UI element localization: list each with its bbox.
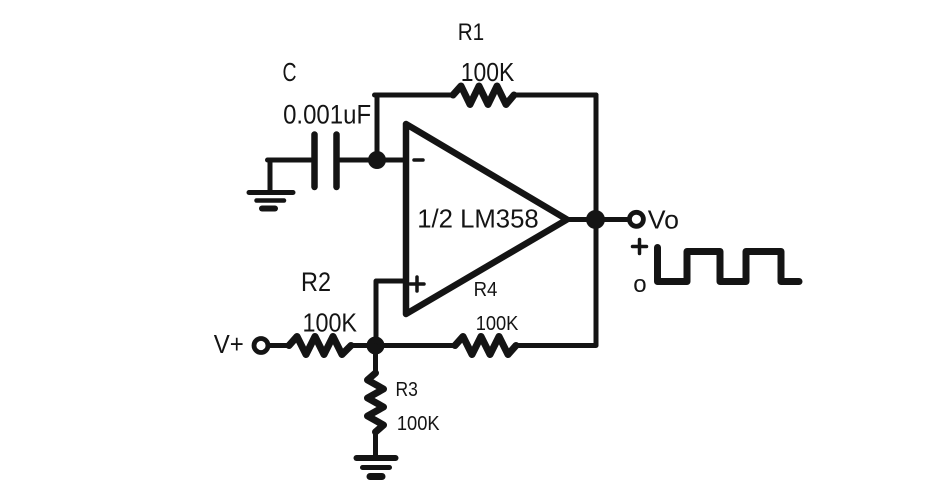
- wire: R3 top lead: [373, 346, 378, 374]
- node B (non-inverting junction): [367, 337, 385, 355]
- pin label minus: [414, 158, 423, 162]
- capacitor C: [311, 135, 318, 188]
- svg-text:100K: 100K: [476, 313, 519, 335]
- svg-text:C: C: [283, 59, 297, 87]
- ground (under R3): [357, 455, 396, 461]
- resistor R1: [453, 86, 514, 105]
- wire: top rail right segment: [514, 93, 596, 98]
- wire: node A up to top rail: [375, 95, 380, 160]
- svg-text:R2: R2: [301, 267, 331, 297]
- op-amp U1 (1/2 LM358): [406, 124, 567, 314]
- wire: capacitor right plate to node A: [340, 158, 377, 163]
- svg-text:R3: R3: [396, 379, 418, 401]
- wire: R2 to node B: [351, 343, 377, 348]
- wire: ground to capacitor left plate: [268, 158, 312, 163]
- resistor R2: [289, 337, 351, 355]
- pin label plus: [410, 277, 424, 291]
- svg-text:0.001uF: 0.001uF: [283, 100, 371, 130]
- node A (inverting input junction): [368, 151, 386, 169]
- wire: top rail left segment: [375, 93, 454, 98]
- svg-text:100K: 100K: [303, 308, 358, 338]
- wire: V+ terminal to R2: [268, 343, 289, 348]
- wire: R4 to right rail: [516, 343, 596, 348]
- svg-text:V+: V+: [214, 329, 244, 359]
- wire: node B up to non-inverting input: [376, 281, 405, 346]
- node OUT (output junction on rail): [586, 210, 605, 229]
- resistor R4: [455, 337, 516, 355]
- svg-text:100K: 100K: [397, 413, 440, 435]
- wire: R3 bottom lead: [373, 432, 378, 455]
- wire: op-amp output to Vo terminal: [567, 217, 629, 222]
- svg-text:100K: 100K: [461, 59, 515, 87]
- terminal Vo: [629, 212, 643, 226]
- svg-text:o: o: [633, 271, 646, 298]
- svg-text:1/2 LM358: 1/2 LM358: [417, 204, 539, 234]
- terminal V+: [254, 339, 268, 353]
- wire: node A to op-amp inverting input: [377, 158, 405, 163]
- svg-text:Vo: Vo: [648, 205, 679, 235]
- wire: node B to R4: [377, 343, 455, 348]
- waveform axis label plus: [633, 240, 647, 254]
- resistor R3: [368, 373, 384, 432]
- ground (left, at capacitor): [268, 160, 273, 191]
- square wave symbol: [658, 248, 800, 282]
- svg-text:R1: R1: [458, 19, 485, 46]
- svg-text:R4: R4: [474, 279, 498, 301]
- wire: right rail: [594, 95, 599, 345]
